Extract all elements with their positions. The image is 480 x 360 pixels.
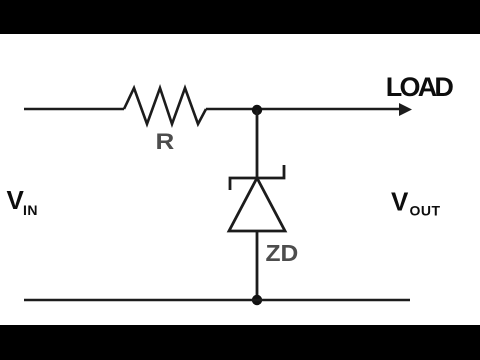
top letterbox bar [0,0,480,34]
bottom letterbox bar [0,325,480,360]
svg-text:V: V [391,187,409,217]
svg-text:OUT: OUT [410,203,441,219]
node: top junction dot [252,105,262,115]
svg-text:LOAD: LOAD [386,72,454,102]
wire: resistor to load arrow [206,108,400,111]
wire: bottom rail [24,299,410,302]
arrowhead to LOAD [399,103,412,116]
svg-text:V: V [7,185,25,215]
wire: zener anode down to bottom rail [256,231,259,300]
svg-text:R: R [156,130,175,155]
svg-text:IN: IN [23,202,38,218]
svg-text:ZD: ZD [266,241,299,267]
resistor R [124,88,206,124]
zener diode ZD cathode bar with bent ends [230,165,284,190]
wire: input to resistor [24,108,124,111]
node: bottom junction dot [252,295,262,305]
wire: junction down to zener cathode [256,110,259,178]
zener diode ZD anode triangle [229,178,285,231]
